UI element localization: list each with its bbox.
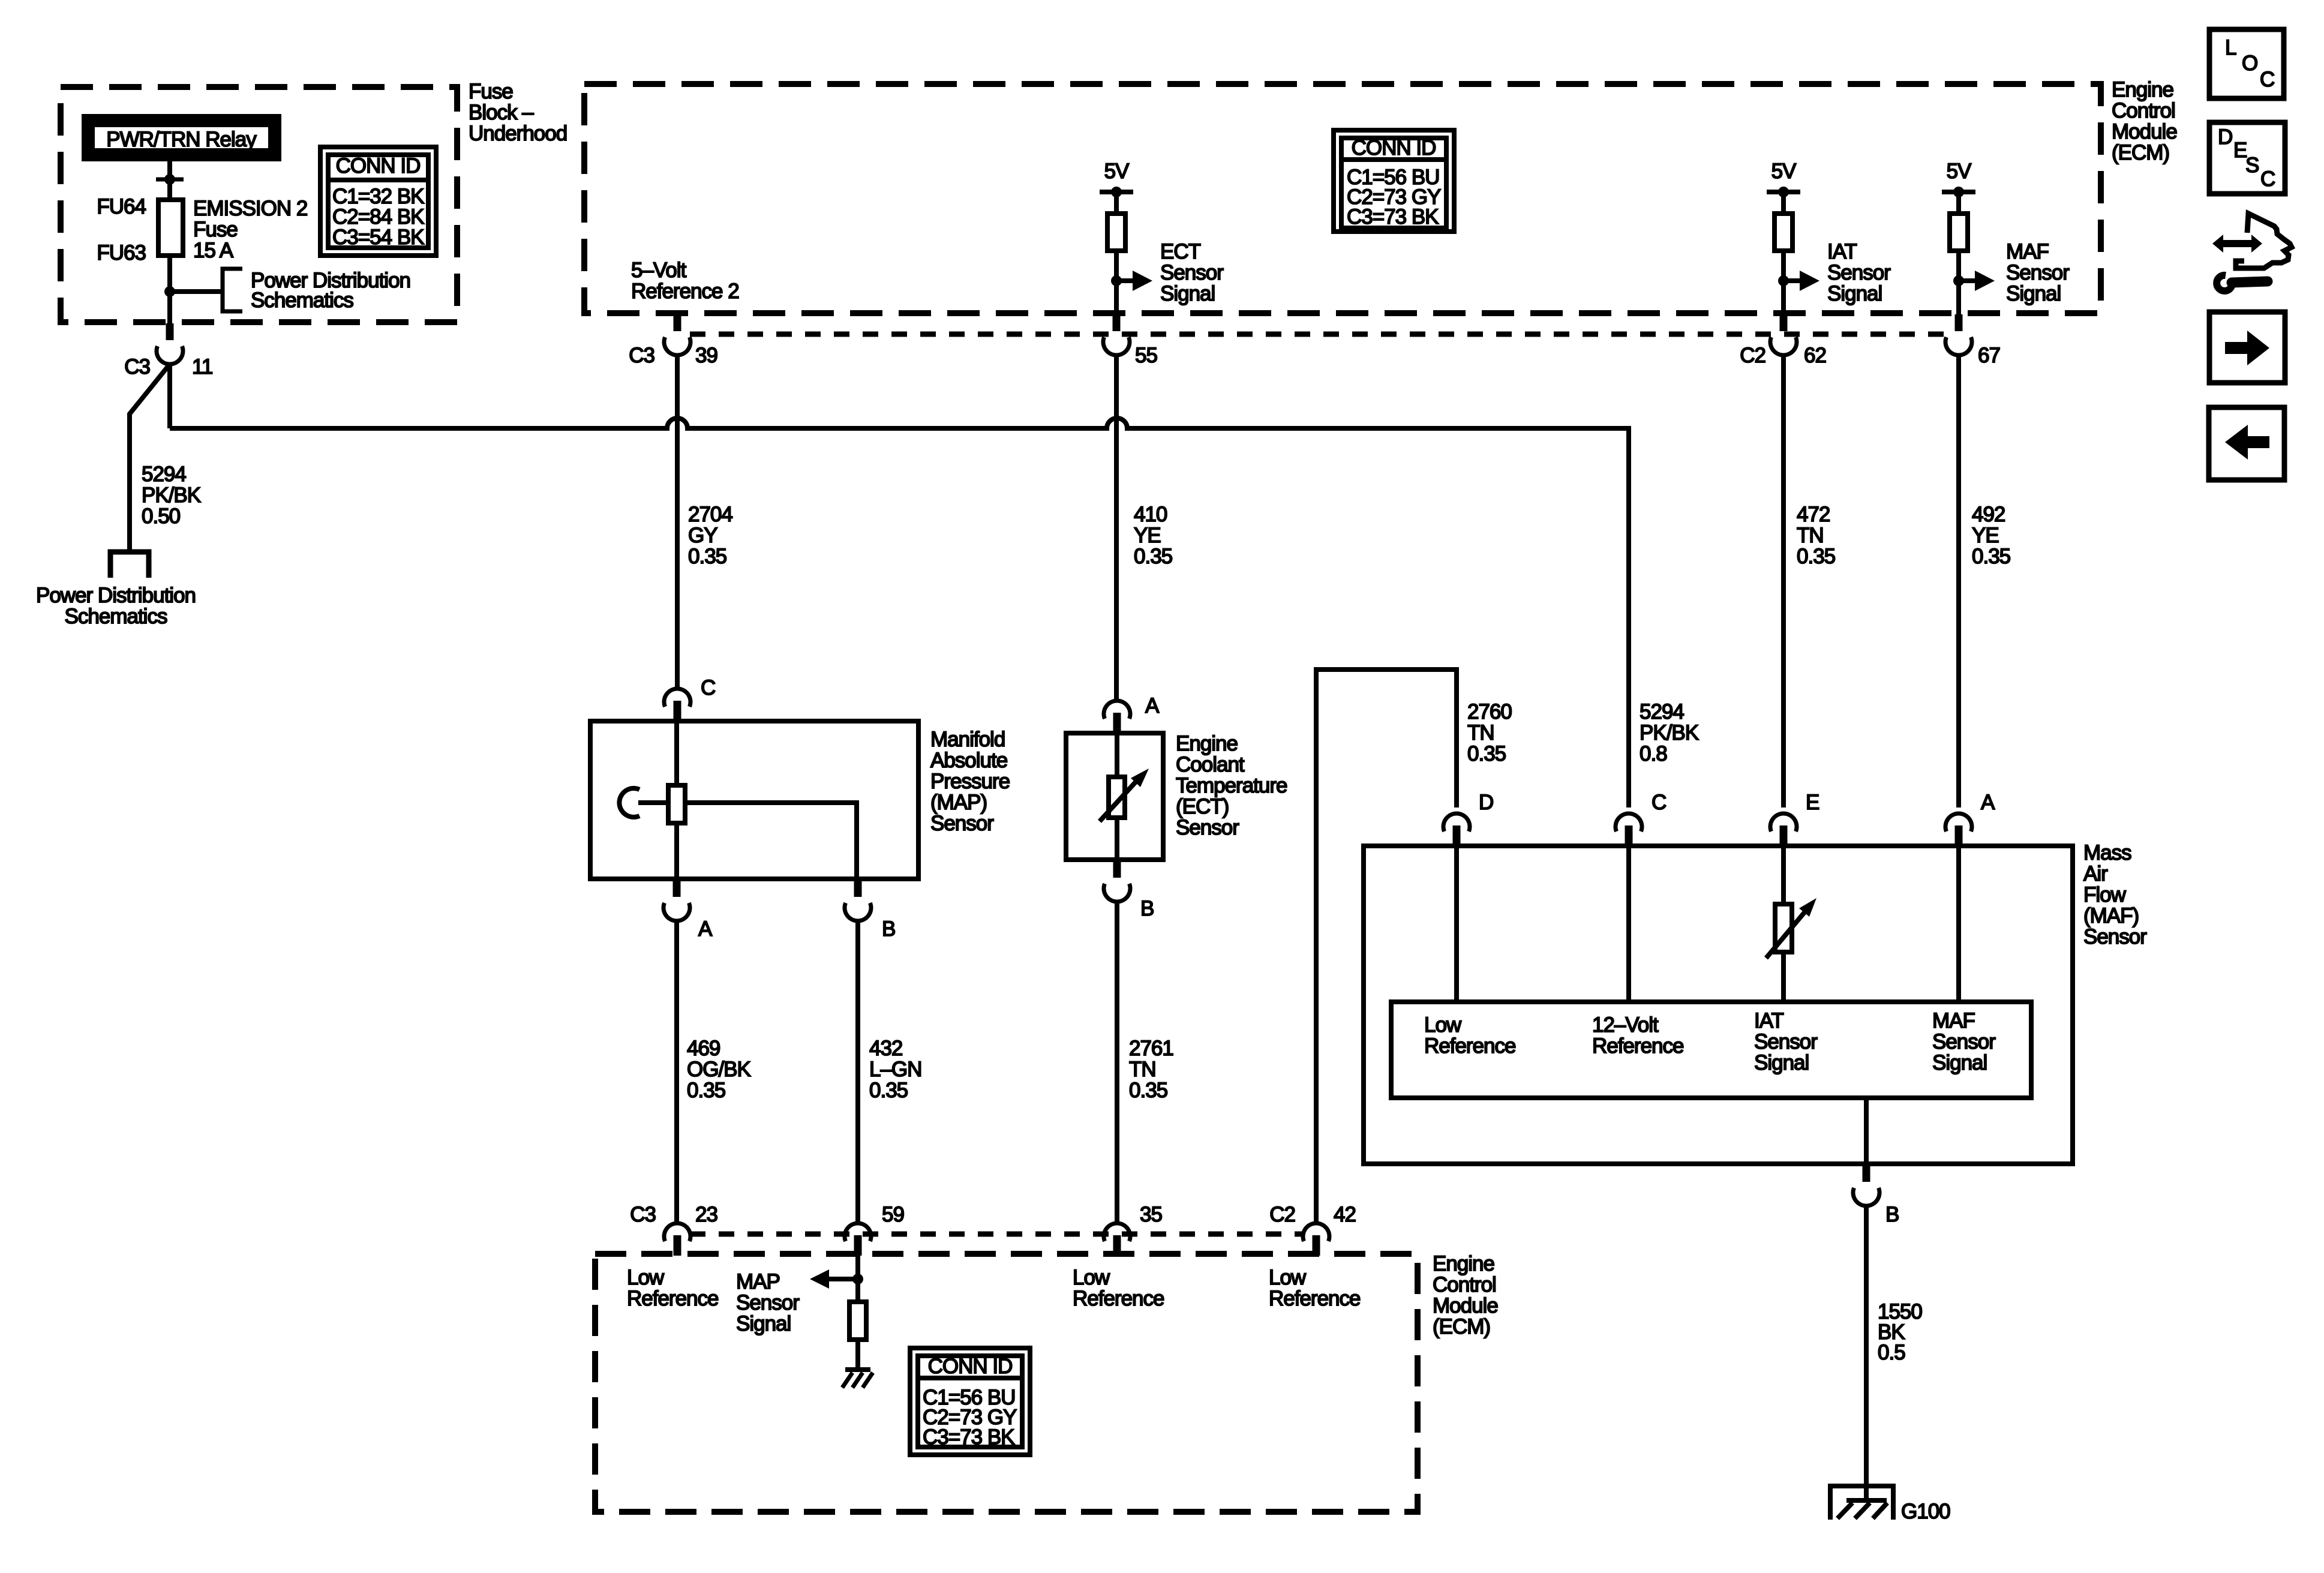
- svg-text:FU63: FU63: [97, 241, 146, 265]
- svg-text:A: A: [698, 917, 713, 941]
- svg-text:TN: TN: [1467, 721, 1494, 745]
- svg-text:0.35: 0.35: [688, 545, 726, 568]
- svg-text:C: C: [1652, 791, 1666, 814]
- svg-text:Mass: Mass: [2083, 841, 2131, 864]
- svg-text:C3=54 BK: C3=54 BK: [332, 226, 424, 249]
- svg-text:YE: YE: [1972, 524, 1999, 547]
- svg-text:2704: 2704: [688, 503, 732, 526]
- svg-text:5V: 5V: [1947, 160, 1972, 183]
- wire MAF internal C: [1626, 846, 1631, 1002]
- svg-text:Reference: Reference: [1424, 1034, 1515, 1058]
- label C2 (pin 42): [1269, 1203, 1295, 1226]
- svg-text:Pressure: Pressure: [930, 770, 1010, 793]
- wire MAP signal internal: [855, 1256, 860, 1302]
- svg-text:Module: Module: [2112, 120, 2177, 143]
- label EMISSION 2 fuse 15 A: [193, 197, 307, 262]
- svg-text:0.35: 0.35: [1129, 1079, 1167, 1102]
- label 5-volt reference 2: [631, 259, 739, 303]
- label mass air flow sensor: [2083, 841, 2147, 948]
- label 55: [1135, 344, 1157, 367]
- svg-text:Reference: Reference: [1269, 1287, 1360, 1310]
- wire 2761 TN (ECT B to 35): [1115, 902, 1119, 1222]
- svg-text:D: D: [1479, 791, 1493, 814]
- svg-text:Engine: Engine: [2112, 78, 2173, 101]
- label IAT sensor signal (MAF): [1754, 1009, 1818, 1074]
- label power distribution schematics (fuse block): [251, 269, 410, 312]
- svg-text:CONN ID: CONN ID: [928, 1355, 1013, 1378]
- svg-text:MAF: MAF: [2006, 240, 2049, 263]
- svg-text:Engine: Engine: [1176, 732, 1238, 755]
- node 5V / resistor (ECT pull-up): [1100, 160, 1152, 314]
- label 67: [1978, 344, 2000, 367]
- svg-text:Reference: Reference: [627, 1287, 718, 1310]
- svg-text:TN: TN: [1129, 1058, 1156, 1081]
- svg-text:Flow: Flow: [2083, 883, 2127, 906]
- wire 472 TN (62 to MAF E): [1781, 355, 1786, 807]
- svg-text:0.35: 0.35: [1797, 545, 1835, 568]
- connector MAF pin E: [1770, 813, 1797, 846]
- label C3 (pin 39): [629, 344, 654, 367]
- svg-text:Sensor: Sensor: [2083, 925, 2147, 948]
- label wire 469 OG/BK 0.35: [687, 1037, 751, 1102]
- svg-text:C3: C3: [630, 1203, 656, 1226]
- svg-text:Control: Control: [1433, 1273, 1496, 1296]
- label wire 410 YE 0.35: [1134, 503, 1172, 568]
- svg-text:Underhood: Underhood: [469, 122, 567, 145]
- label FU64: [97, 195, 146, 218]
- wire C3-11 down to 5294 bus: [167, 364, 172, 428]
- wire MAF internal D: [1454, 846, 1459, 1002]
- label ECT sensor signal: [1160, 240, 1224, 305]
- wire 469 OG/BK (MAP A to 23): [674, 921, 679, 1222]
- svg-text:0.35: 0.35: [1972, 545, 2010, 568]
- label power distribution schematics (bottom left): [36, 584, 196, 628]
- svg-text:C3: C3: [124, 355, 150, 379]
- connector MAF pin C: [1616, 813, 1642, 846]
- svg-text:Coolant: Coolant: [1176, 753, 1245, 776]
- svg-text:5V: 5V: [1771, 160, 1797, 183]
- svg-text:Module: Module: [1433, 1294, 1498, 1317]
- svg-text:12–Volt: 12–Volt: [1592, 1013, 1659, 1037]
- connector MAF pin B: [1853, 1165, 1879, 1206]
- label engine control module (ECM) bottom: [1433, 1252, 1498, 1338]
- label wire 5294 PK/BK 0.8: [1640, 700, 1699, 766]
- svg-text:Low: Low: [1073, 1266, 1110, 1289]
- relay PWR/TRN: [82, 114, 281, 161]
- off-page destination symbol (power distribution): [110, 552, 149, 578]
- label: fuse block - underhood: [469, 80, 567, 145]
- node 5V / resistor (MAF pull-up): [1942, 160, 1995, 314]
- svg-text:CONN ID: CONN ID: [1352, 136, 1436, 160]
- svg-text:11: 11: [192, 355, 212, 379]
- node junction below fuse: [164, 286, 175, 297]
- svg-text:5294: 5294: [1640, 700, 1684, 724]
- node MAP signal junction: [852, 1274, 863, 1284]
- node 5V / resistor (IAT pull-up): [1767, 160, 1819, 314]
- wire 1550 BK (MAF B to G100): [1864, 1206, 1869, 1499]
- svg-text:L: L: [2225, 36, 2236, 59]
- svg-text:432: 432: [869, 1037, 902, 1060]
- dotted connector line (ECM bottom): [690, 1232, 1305, 1237]
- svg-text:5–Volt: 5–Volt: [631, 259, 687, 282]
- label D (MAF): [1479, 791, 1493, 814]
- connector C3 pin 11: [157, 323, 183, 364]
- connector ECT pin B: [1104, 861, 1130, 902]
- icon forward arrow box: [2209, 312, 2285, 383]
- svg-text:2760: 2760: [1467, 700, 1512, 724]
- connector pin 59: [845, 1223, 871, 1256]
- svg-text:0.8: 0.8: [1640, 742, 1667, 766]
- svg-text:IAT: IAT: [1827, 240, 1857, 263]
- svg-text:G100: G100: [1901, 1500, 1950, 1523]
- label engine control module (ECM) top: [2112, 78, 2177, 164]
- svg-text:Sensor: Sensor: [736, 1291, 800, 1314]
- label B (MAP): [882, 917, 895, 941]
- svg-text:492: 492: [1972, 503, 2005, 526]
- svg-text:410: 410: [1134, 503, 1167, 526]
- MAP sensor box: [590, 721, 918, 879]
- label C (MAP): [701, 676, 715, 700]
- svg-text:GY: GY: [688, 524, 717, 547]
- svg-text:Power Distribution: Power Distribution: [36, 584, 196, 607]
- svg-text:Signal: Signal: [2006, 282, 2061, 305]
- svg-text:Sensor: Sensor: [1932, 1030, 1996, 1053]
- svg-text:TN: TN: [1797, 524, 1824, 547]
- svg-text:Manifold: Manifold: [930, 728, 1005, 751]
- label G100: [1901, 1500, 1950, 1523]
- svg-text:0.35: 0.35: [687, 1079, 725, 1102]
- svg-text:Sensor: Sensor: [1754, 1030, 1818, 1053]
- svg-text:Sensor: Sensor: [1827, 261, 1891, 284]
- wire relay to fuse: [167, 161, 172, 200]
- svg-text:L–GN: L–GN: [869, 1058, 921, 1081]
- connector MAP pin B: [845, 880, 871, 921]
- svg-text:C3: C3: [629, 344, 654, 367]
- icon LOC box: [2209, 29, 2284, 98]
- svg-text:0.5: 0.5: [1878, 1341, 1905, 1364]
- svg-text:E: E: [2233, 139, 2247, 162]
- svg-text:0.50: 0.50: [142, 505, 181, 528]
- label low reference (pin 42): [1269, 1266, 1360, 1310]
- off-page bracket: power distribution schematics: [223, 269, 242, 311]
- svg-text:C: C: [2260, 167, 2275, 191]
- wire 492 YE (67 to MAF A): [1956, 355, 1961, 807]
- label B (MAF): [1885, 1203, 1899, 1226]
- label engine coolant temperature sensor: [1176, 732, 1287, 839]
- connector pin 55: [1103, 314, 1130, 355]
- wire MAF internal A: [1956, 846, 1961, 1002]
- label 11: [192, 355, 212, 379]
- svg-text:Signal: Signal: [1754, 1051, 1809, 1074]
- svg-text:Schematics: Schematics: [251, 289, 353, 312]
- label wire 2760 TN 0.35: [1467, 700, 1512, 766]
- ECT thermistor element: [1100, 733, 1149, 860]
- wire junction to bracket: [170, 289, 223, 294]
- svg-text:5294: 5294: [142, 463, 186, 486]
- wire 2760 TN (42 to MAF D): [1316, 670, 1457, 1222]
- svg-text:Control: Control: [2112, 99, 2175, 122]
- svg-text:E: E: [1806, 791, 1819, 814]
- connector MAP pin C: [664, 689, 690, 721]
- svg-text:Fuse: Fuse: [193, 218, 238, 241]
- icon vehicle outline: [2236, 214, 2292, 268]
- MAP pressure port symbol: [619, 788, 668, 817]
- svg-text:Absolute: Absolute: [930, 749, 1007, 772]
- svg-text:CONN ID: CONN ID: [336, 154, 421, 178]
- label wire 472 TN 0.35: [1797, 503, 1835, 568]
- svg-text:C2: C2: [1269, 1203, 1295, 1226]
- label C3 (pin 23): [630, 1203, 656, 1226]
- svg-text:B: B: [1885, 1203, 1899, 1226]
- label 59: [882, 1203, 904, 1226]
- svg-text:Sensor: Sensor: [1160, 261, 1224, 284]
- fuse block - underhood dashed box: [61, 87, 457, 322]
- svg-text:(MAP): (MAP): [930, 791, 987, 814]
- label 62: [1804, 344, 1826, 367]
- connector ECT pin A: [1104, 701, 1130, 733]
- wire MAF B internal: [1864, 1098, 1869, 1164]
- label 23: [695, 1203, 717, 1226]
- ECT sensor box: [1066, 733, 1163, 860]
- connector pin 35: [1104, 1223, 1130, 1256]
- wire 410 YE (55 to ECT A): [1114, 355, 1119, 700]
- svg-text:(ECT): (ECT): [1176, 795, 1229, 818]
- svg-text:B: B: [1140, 897, 1154, 920]
- svg-text:Reference: Reference: [1073, 1287, 1164, 1310]
- svg-text:C3=73 BK: C3=73 BK: [1347, 205, 1439, 229]
- svg-text:(ECM): (ECM): [2112, 141, 2169, 164]
- label MAF sensor signal (MAF): [1932, 1009, 1996, 1074]
- label wire 2704 GY 0.35: [688, 503, 732, 568]
- MAF inner box: [1391, 1002, 2031, 1098]
- svg-text:Air: Air: [2083, 862, 2108, 885]
- label wire 1550 BK 0.5: [1878, 1300, 1922, 1364]
- svg-text:Reference 2: Reference 2: [631, 280, 739, 303]
- svg-text:Signal: Signal: [1932, 1051, 1987, 1074]
- svg-text:OG/BK: OG/BK: [687, 1058, 751, 1081]
- svg-text:PK/BK: PK/BK: [142, 484, 201, 507]
- svg-text:0.35: 0.35: [1467, 742, 1506, 766]
- wire diagonal from C3-11 (5294 to power dist): [130, 364, 170, 550]
- engine control module dashed box (bottom): [595, 1254, 1418, 1512]
- svg-text:35: 35: [1140, 1203, 1162, 1226]
- fuse FU64/FU63 EMISSION 2 15A: [158, 200, 183, 256]
- icon back arrow box: [2209, 407, 2284, 480]
- svg-text:C: C: [701, 676, 715, 700]
- svg-text:A: A: [1145, 694, 1160, 718]
- svg-text:C3=73 BK: C3=73 BK: [923, 1425, 1014, 1449]
- wire MAP internal signal: [685, 803, 857, 879]
- svg-text:Low: Low: [1424, 1013, 1462, 1037]
- svg-text:Engine: Engine: [1433, 1252, 1494, 1275]
- svg-text:PWR/TRN Relay: PWR/TRN Relay: [106, 128, 257, 151]
- connector C3 pin 23: [664, 1223, 690, 1256]
- svg-text:Sensor: Sensor: [2006, 261, 2070, 284]
- svg-text:62: 62: [1804, 344, 1826, 367]
- svg-text:Signal: Signal: [1827, 282, 1882, 305]
- icon double arrow: [2212, 235, 2262, 253]
- svg-text:Sensor: Sensor: [930, 812, 994, 835]
- svg-text:Reference: Reference: [1592, 1034, 1683, 1058]
- svg-text:Signal: Signal: [1160, 282, 1215, 305]
- label A (MAF): [1981, 791, 1995, 814]
- label A (MAP): [698, 917, 713, 941]
- icon DESC box: [2209, 122, 2285, 194]
- label IAT sensor signal: [1827, 240, 1891, 305]
- svg-text:Fuse: Fuse: [469, 80, 513, 103]
- label C3 (pin 11): [124, 355, 150, 379]
- connector C2 pin 62: [1770, 314, 1797, 355]
- MAP transducer element: [668, 785, 685, 823]
- conn id table (fuse block): [320, 147, 436, 256]
- svg-text:B: B: [882, 917, 895, 941]
- arrow MAP sensor signal: [810, 1269, 858, 1289]
- svg-text:5V: 5V: [1104, 160, 1130, 183]
- svg-text:Schematics: Schematics: [65, 605, 167, 628]
- MAF IAT thermistor element: [1766, 898, 1816, 958]
- svg-text:0.35: 0.35: [869, 1079, 908, 1102]
- node relay pin tick: [156, 174, 184, 185]
- label 12-volt reference (MAF): [1592, 1013, 1683, 1058]
- ground ECM internal: [842, 1370, 873, 1388]
- svg-text:EMISSION 2: EMISSION 2: [193, 197, 307, 220]
- icon wrench: [2217, 275, 2268, 291]
- wire resistor to ground: [855, 1340, 860, 1370]
- svg-text:23: 23: [695, 1203, 717, 1226]
- svg-text:(ECM): (ECM): [1433, 1315, 1490, 1338]
- label manifold absolute pressure sensor: [930, 728, 1010, 835]
- dotted connector line (ECM top): [690, 332, 1954, 337]
- conn id table (ECM bottom): [910, 1348, 1030, 1455]
- svg-text:MAF: MAF: [1932, 1009, 1975, 1032]
- svg-text:Temperature: Temperature: [1176, 774, 1287, 797]
- svg-text:D: D: [2218, 125, 2232, 149]
- label E (MAF): [1806, 791, 1819, 814]
- label 39: [695, 344, 717, 367]
- label wire 432 L-GN 0.35: [869, 1037, 921, 1102]
- ground G100: [1830, 1486, 1893, 1520]
- label C2 (pin 62): [1740, 344, 1765, 367]
- label MAP sensor signal (pin 59): [736, 1270, 800, 1335]
- resistor ECM internal (MAP signal): [849, 1302, 866, 1340]
- label MAF sensor signal: [2006, 240, 2070, 305]
- svg-text:Block –: Block –: [469, 101, 534, 124]
- svg-text:IAT: IAT: [1754, 1009, 1783, 1032]
- label 35: [1140, 1203, 1162, 1226]
- label wire 2761 TN 0.35: [1129, 1037, 1173, 1102]
- svg-text:42: 42: [1334, 1203, 1356, 1226]
- label B (ECT): [1140, 897, 1154, 920]
- label C (MAF): [1652, 791, 1666, 814]
- svg-text:472: 472: [1797, 503, 1830, 526]
- svg-text:Sensor: Sensor: [1176, 816, 1239, 839]
- label low reference (pin 23): [627, 1266, 718, 1310]
- wire fuse to junction: [167, 256, 172, 325]
- conn id table (ECM top): [1334, 130, 1454, 232]
- label low reference (pin 35): [1073, 1266, 1164, 1310]
- connector C2 pin 42: [1303, 1223, 1329, 1256]
- svg-text:39: 39: [695, 344, 717, 367]
- label A (ECT): [1145, 694, 1160, 718]
- connector MAP pin A: [663, 880, 690, 921]
- svg-text:469: 469: [687, 1037, 720, 1060]
- svg-text:67: 67: [1978, 344, 2000, 367]
- svg-text:55: 55: [1135, 344, 1157, 367]
- svg-text:PK/BK: PK/BK: [1640, 721, 1699, 745]
- svg-text:C2: C2: [1740, 344, 1765, 367]
- svg-text:A: A: [1981, 791, 1995, 814]
- engine control module dashed box (top): [584, 84, 2101, 313]
- connector MAF pin D: [1443, 813, 1470, 846]
- svg-text:MAP: MAP: [736, 1270, 780, 1293]
- MAF sensor outer box: [1364, 846, 2073, 1164]
- svg-text:2761: 2761: [1129, 1037, 1173, 1060]
- label 42: [1334, 1203, 1356, 1226]
- svg-text:O: O: [2242, 52, 2257, 75]
- wire horizontal 5294 bus with hops: [170, 418, 1629, 807]
- label wire 492 YE 0.35: [1972, 503, 2010, 568]
- svg-text:Signal: Signal: [736, 1312, 791, 1335]
- svg-text:(MAF): (MAF): [2083, 904, 2139, 927]
- connector MAF pin A: [1945, 813, 1972, 846]
- wire 432 L-GN (MAP B to 59): [855, 921, 860, 1222]
- label wire 5294 PK/BK 0.50: [142, 463, 201, 528]
- svg-text:C: C: [2260, 68, 2274, 91]
- svg-text:YE: YE: [1134, 524, 1161, 547]
- label FU63: [97, 241, 146, 265]
- svg-text:ECT: ECT: [1160, 240, 1201, 263]
- svg-text:FU64: FU64: [97, 195, 146, 218]
- wire 2704 GY (39 to MAP C): [675, 355, 680, 688]
- wire MAP internal vertical: [674, 721, 679, 879]
- svg-text:Low: Low: [627, 1266, 665, 1289]
- wire MAF internal E: [1781, 846, 1786, 1002]
- svg-text:S: S: [2245, 154, 2259, 177]
- svg-text:0.35: 0.35: [1134, 545, 1172, 568]
- label low reference (MAF): [1424, 1013, 1515, 1058]
- connector C3 pin 39: [664, 314, 690, 355]
- svg-text:15 A: 15 A: [193, 239, 234, 262]
- svg-text:59: 59: [882, 1203, 904, 1226]
- connector pin 67: [1945, 314, 1972, 355]
- svg-text:Low: Low: [1269, 1266, 1307, 1289]
